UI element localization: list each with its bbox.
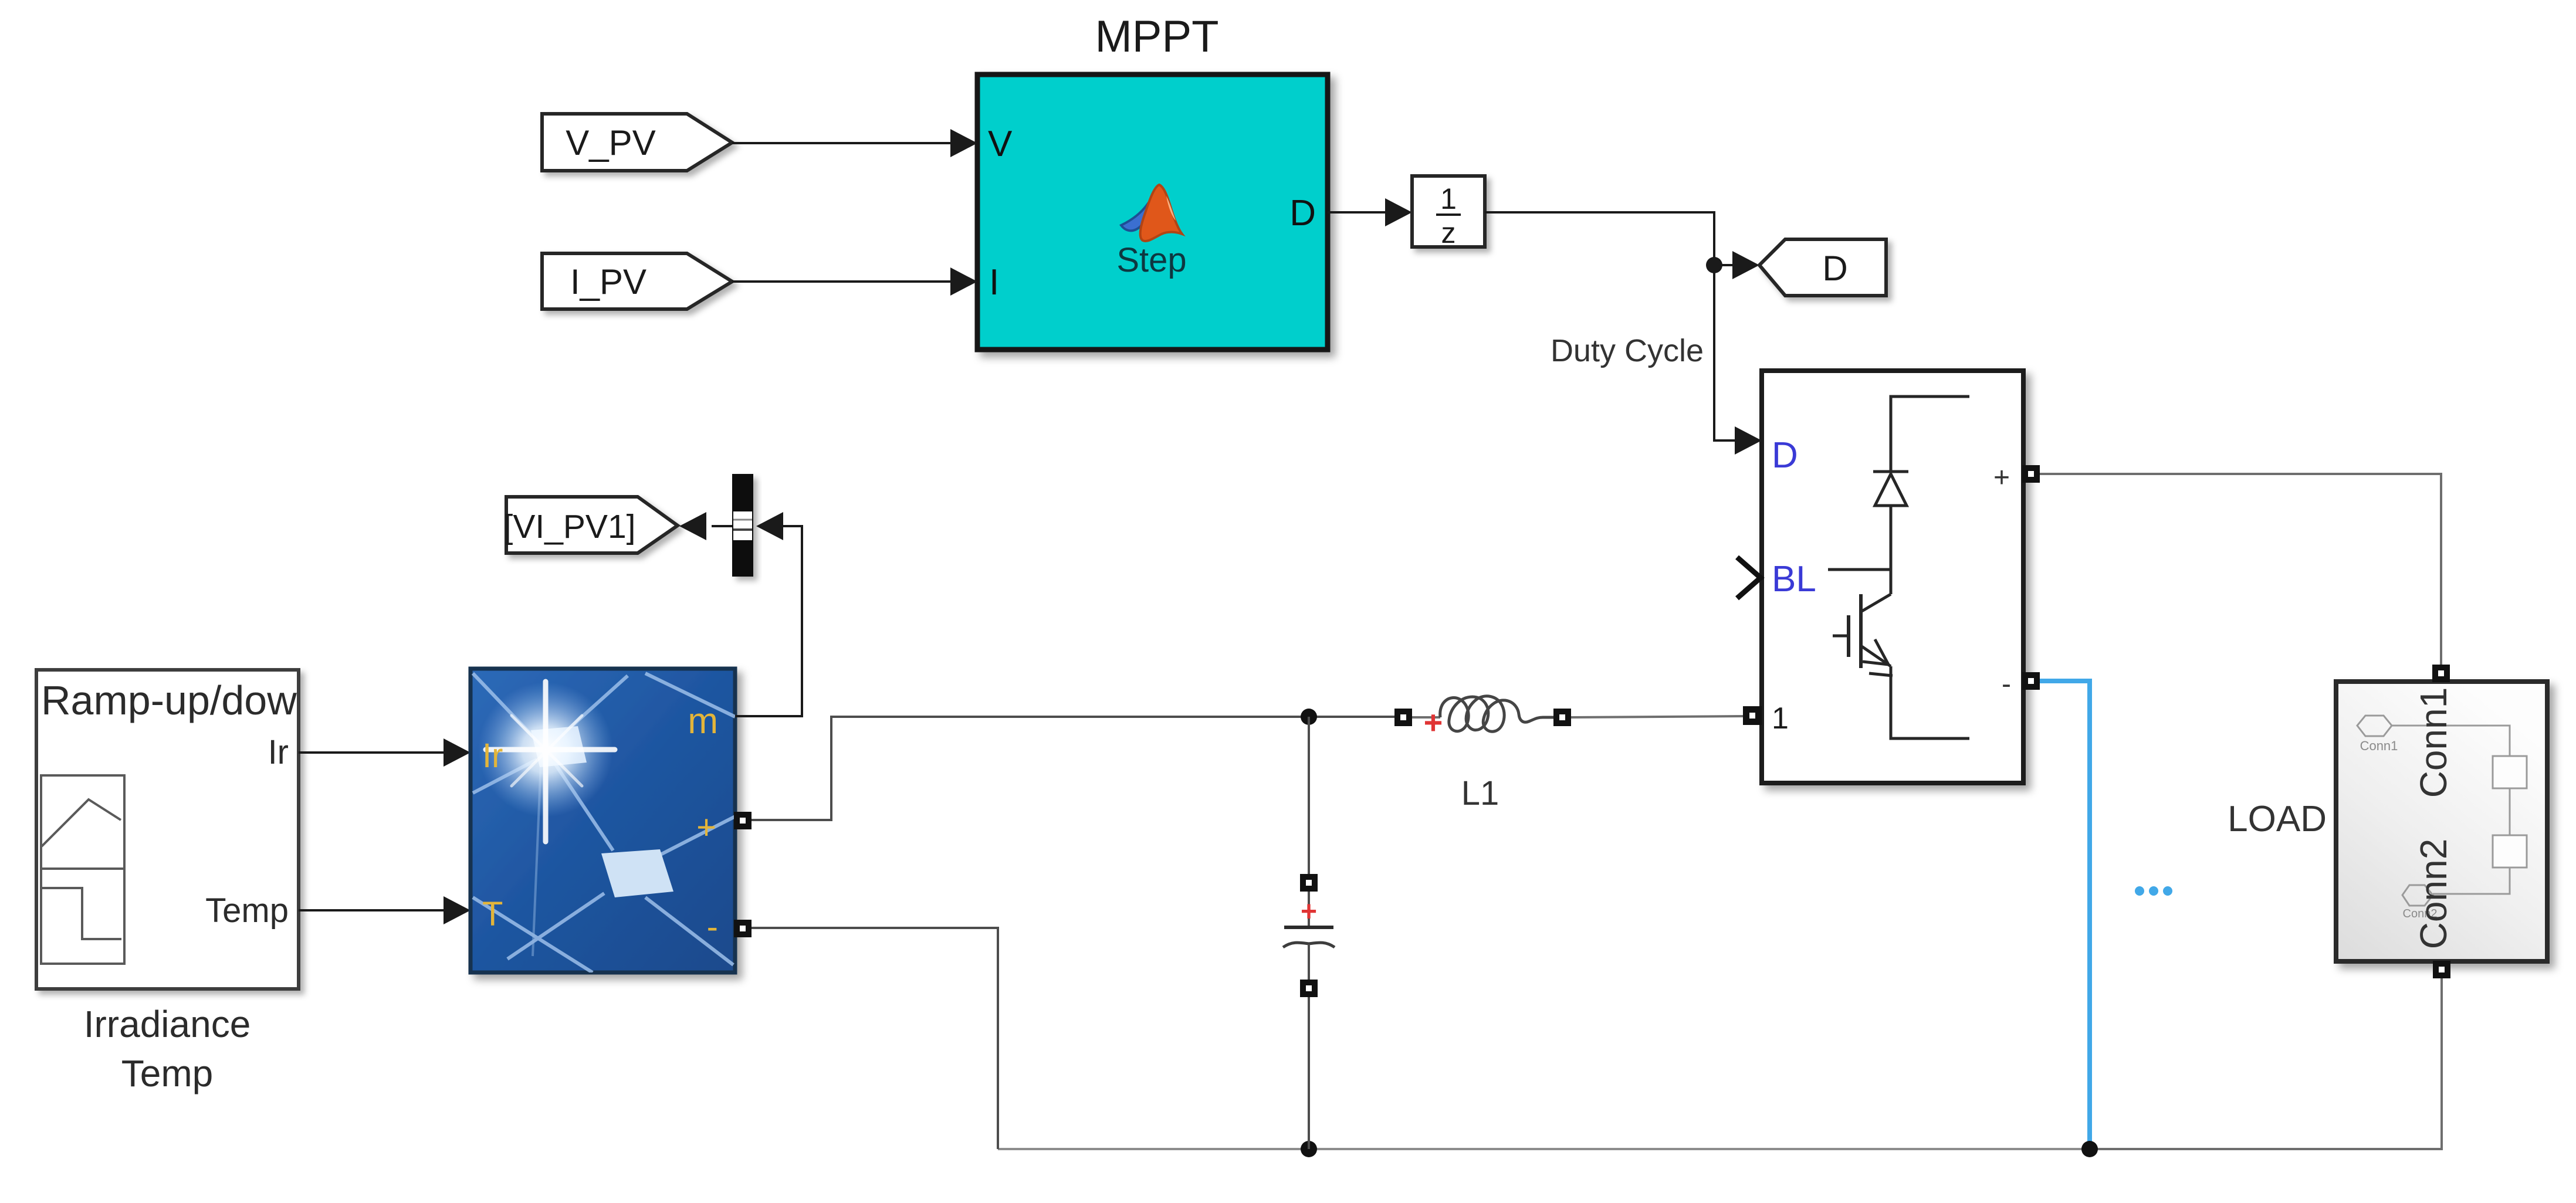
label Irradiance Temp	[84, 1003, 251, 1094]
svg-text:+: +	[696, 808, 716, 846]
MATLAB logo inside MPPT	[1121, 185, 1182, 241]
wire V_PV to MPPT V input	[732, 129, 977, 157]
mux block	[732, 474, 753, 577]
wire I_PV to MPPT I input	[732, 267, 977, 296]
block MPPT (MATLAB function subsystem)	[977, 74, 1328, 350]
wire PV - output to rail	[752, 928, 998, 1149]
svg-text:Step: Step	[1116, 241, 1186, 279]
inductor L1	[1394, 696, 1571, 741]
svg-text:+: +	[1301, 896, 1317, 927]
port square LOAD bottom	[2433, 961, 2450, 978]
svg-text:V_PV: V_PV	[566, 123, 655, 162]
svg-text:T: T	[482, 895, 503, 933]
annotation blue dots	[2135, 886, 2172, 896]
wire PV + output to node	[752, 717, 1309, 820]
svg-text:+: +	[1424, 704, 1443, 741]
svg-text:-: -	[707, 908, 718, 946]
svg-text:Duty Cycle: Duty Cycle	[1551, 333, 1704, 368]
unit delay block 1/z	[1412, 176, 1485, 249]
wire converter + output to LOAD top	[2039, 474, 2441, 665]
block LOAD subsystem	[2336, 682, 2547, 961]
svg-text:1: 1	[1772, 702, 1789, 736]
goto tag V_PV	[542, 114, 732, 171]
label MPPT title	[1095, 12, 1218, 62]
wire MPPT D output to unit delay	[1328, 198, 1412, 226]
junction rail blue wire	[2081, 1141, 2098, 1157]
svg-text:z: z	[1441, 216, 1456, 249]
svg-text:D: D	[1289, 193, 1316, 233]
block Ramp-up/down source	[36, 670, 320, 989]
junction rail capacitor	[1301, 1141, 1317, 1157]
bottom rail wire	[998, 1148, 2090, 1150]
label LOAD	[2228, 799, 2327, 839]
svg-text:+: +	[1993, 462, 2010, 493]
svg-text:[VI_PV1]: [VI_PV1]	[504, 508, 636, 545]
goto tag D	[1759, 239, 1886, 296]
svg-text:Ramp-up/down: Ramp-up/down	[41, 677, 320, 723]
svg-text:BL: BL	[1772, 559, 1816, 599]
wire LOAD bottom to rail	[2090, 978, 2442, 1149]
svg-text:MPPT: MPPT	[1095, 12, 1218, 62]
wire inductor to converter 1 port	[1571, 716, 1743, 717]
svg-text:Temp: Temp	[121, 1052, 214, 1094]
port square converter -	[2022, 672, 2040, 690]
port square PV -	[734, 920, 752, 937]
svg-text:1: 1	[1440, 182, 1457, 215]
svg-text:Conn1: Conn1	[2360, 738, 2398, 753]
diode inside converter	[1873, 397, 1969, 594]
block PV array	[470, 669, 735, 972]
svg-text:m: m	[688, 701, 718, 741]
port square converter 1	[1743, 706, 1762, 725]
svg-text:I: I	[989, 262, 999, 303]
svg-text:D: D	[1772, 435, 1798, 476]
label Duty Cycle	[1551, 333, 1704, 368]
svg-text:V: V	[988, 124, 1013, 164]
svg-text:Temp: Temp	[205, 892, 289, 930]
wire unit delay to junction and goto D	[1485, 212, 1759, 279]
svg-text:D: D	[1822, 249, 1847, 288]
IGBT inside converter	[1828, 570, 1969, 738]
svg-text:Ir: Ir	[268, 733, 289, 771]
wire Ramp Temp to PV T input	[299, 896, 470, 924]
label L1	[1461, 774, 1499, 812]
svg-text:L1: L1	[1461, 774, 1499, 812]
svg-text:I_PV: I_PV	[570, 262, 646, 301]
blue selected wire converter - to rail	[2040, 681, 2090, 1145]
goto tag I_PV	[542, 253, 732, 309]
wire PV m output to mux	[735, 512, 802, 716]
BL chevron input port	[1737, 557, 1761, 598]
port square LOAD top	[2432, 665, 2450, 682]
port square converter +	[2022, 465, 2040, 483]
converter block (boost chopper subsystem)	[1762, 371, 2023, 783]
port square PV +	[734, 812, 752, 829]
wire Ramp Ir to PV Ir input	[299, 738, 470, 767]
svg-text:Conn1: Conn1	[2412, 687, 2455, 798]
junction node capacitor top	[1301, 709, 1317, 725]
wire node to inductor	[1309, 716, 1394, 718]
svg-text:Conn2: Conn2	[2412, 839, 2455, 950]
goto tag VI_PV1	[504, 497, 678, 553]
svg-text:Irradiance: Irradiance	[84, 1003, 251, 1045]
svg-text:-: -	[2002, 669, 2011, 700]
svg-text:LOAD: LOAD	[2228, 799, 2327, 839]
wire junction to converter D input	[1714, 265, 1762, 455]
wire mux to goto tag VI_PV1	[679, 512, 732, 540]
capacitor C	[1283, 717, 1335, 1149]
svg-text:Ir: Ir	[482, 737, 503, 775]
junction node	[1706, 257, 1722, 273]
